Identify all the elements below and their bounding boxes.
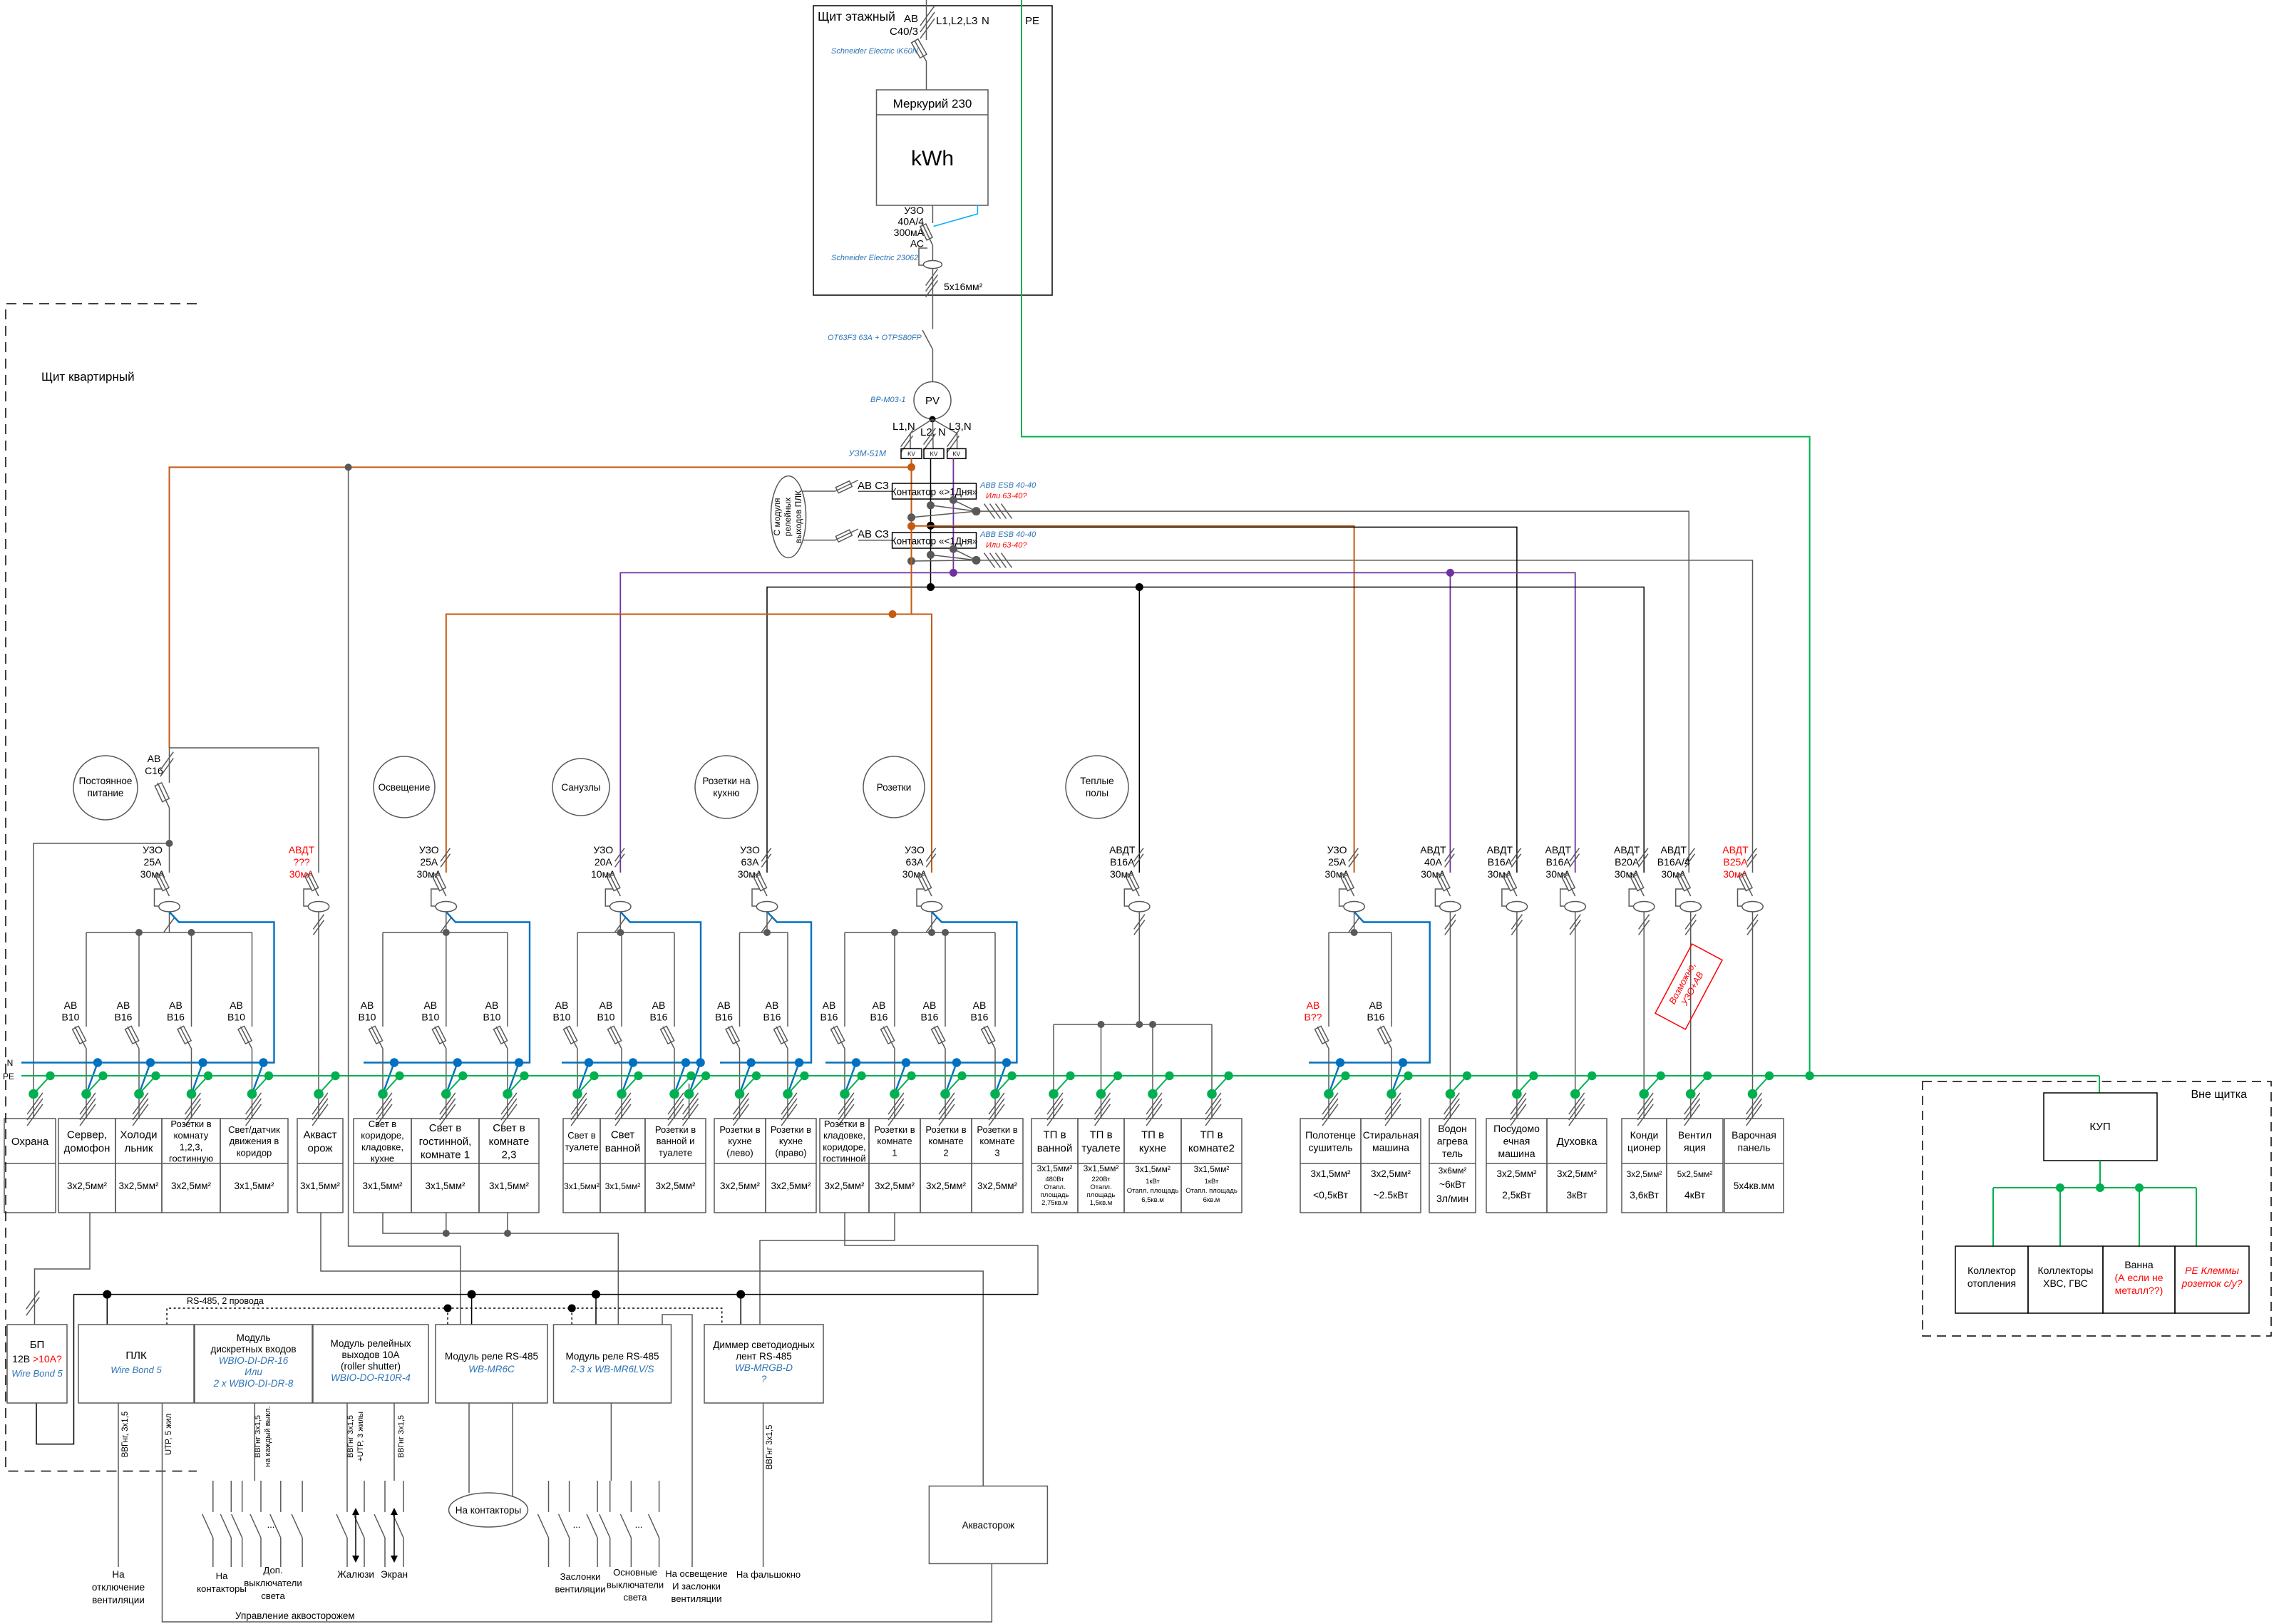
breaker АВ С16 symbol <box>169 748 170 783</box>
svg-text:ВВГнг 3х1,5: ВВГнг 3х1,5 <box>346 1415 355 1458</box>
breaker АВ В16 (кухня право) <box>787 932 788 1027</box>
svg-text:АВВ10: АВВ10 <box>553 999 571 1023</box>
svg-text:N: N <box>7 1058 14 1068</box>
group circle Розетки <box>863 756 925 818</box>
bus internal group A <box>86 932 252 933</box>
load tap свет туалет <box>577 1063 589 1094</box>
table box Холоди <box>115 1119 162 1213</box>
wire УЗО B to bus <box>446 912 447 932</box>
svg-text:На контакторы: На контакторы <box>456 1505 521 1516</box>
contactor K2 pole fan <box>912 560 977 561</box>
node L3 end at bathrooms bus <box>950 569 957 577</box>
RCBO АВДТ water heater symbol <box>1439 873 1450 896</box>
svg-text:ВВГнг 3х1,5: ВВГнг 3х1,5 <box>766 1425 774 1470</box>
node L1 tap to АВ С16 bus <box>907 463 915 471</box>
table box Акваст <box>297 1119 343 1213</box>
svg-text:6кв.м: 6кв.м <box>1203 1196 1220 1204</box>
wire contactor K2 output to cooktop feed <box>977 560 1753 873</box>
svg-text:Свет/датчик: Свет/датчик <box>228 1124 280 1135</box>
wire УЗО E to bus <box>931 912 932 932</box>
wire contactor K1 output to ventilation feed <box>977 511 1689 873</box>
load tap комната 3 <box>995 1063 1007 1094</box>
wire релейных to roller switches <box>346 1403 348 1481</box>
svg-text:3х1,5мм²: 3х1,5мм² <box>1194 1164 1230 1174</box>
svg-text:агрева: агрева <box>1437 1136 1468 1147</box>
table box Вентил <box>1667 1119 1723 1213</box>
svg-text:АВВ16: АВВ16 <box>763 999 781 1023</box>
RCBO АВДТ dishwasher symbol <box>1506 873 1517 896</box>
wire purple bus bathrooms / boiler / oven <box>620 572 1575 873</box>
svg-text:480Вт: 480Вт <box>1045 1176 1064 1183</box>
wire АВДТ cooktop to load <box>1752 912 1754 1119</box>
svg-text:3х1,5мм²: 3х1,5мм² <box>1084 1163 1119 1173</box>
wire ПЛК На отключение вентиляции <box>118 1403 119 1567</box>
svg-text:(право): (право) <box>775 1147 806 1158</box>
svg-text:+UTP, 3 жилы: +UTP, 3 жилы <box>356 1412 365 1461</box>
breaker АВ В10 (свет коридор) <box>382 932 384 1027</box>
svg-text:АВ СЗ: АВ СЗ <box>858 480 889 492</box>
svg-text:коридоре,: коридоре, <box>823 1141 865 1152</box>
svg-text:Сервер,: Сервер, <box>67 1129 107 1141</box>
svg-text:машина: машина <box>1372 1141 1409 1153</box>
svg-text:ТП в: ТП в <box>1089 1129 1112 1141</box>
load tap свет коридор <box>383 1063 394 1094</box>
svg-text:5х16мм²: 5х16мм² <box>944 281 983 292</box>
bus 12V power <box>74 1294 1039 1295</box>
svg-text:АВВ16: АВВ16 <box>870 999 888 1023</box>
svg-text:N: N <box>982 15 989 27</box>
load tap Свет/датчик <box>252 1063 264 1094</box>
svg-text:3х2,5мм²: 3х2,5мм² <box>118 1181 159 1191</box>
svg-text:Стиральная: Стиральная <box>1363 1129 1419 1141</box>
svg-text:кладовке,: кладовке, <box>823 1130 865 1141</box>
disconnect switch ОТ63F3 63А + OTPS80FP <box>922 330 932 349</box>
breaker АВ В10 (свет комнаты) <box>507 932 508 1027</box>
switch АВ СЗ contactor 2 coil feed <box>803 540 835 541</box>
svg-text:сушитель: сушитель <box>1308 1141 1352 1153</box>
svg-text:ТП в: ТП в <box>1043 1129 1066 1141</box>
svg-text:5х2,5мм²: 5х2,5мм² <box>1677 1169 1713 1179</box>
node purple tap to water heater <box>1446 569 1454 577</box>
svg-text:Духовка: Духовка <box>1557 1136 1598 1148</box>
svg-text:БП: БП <box>30 1339 45 1351</box>
wire feed АВДТ Аквасторож <box>170 748 319 873</box>
svg-text:АВДТВ16А30мА: АВДТВ16А30мА <box>1545 844 1571 880</box>
wire АВДТ ventilation to load <box>1690 912 1692 1119</box>
svg-text:Розетки в: Розетки в <box>655 1124 696 1135</box>
box Модуль реле WB-MR6C <box>436 1325 547 1403</box>
wire УЗО C to bus <box>619 912 621 932</box>
load tap extra drop <box>689 1063 701 1094</box>
wire brown bus to towel rail group <box>912 526 1354 873</box>
breaker АВ В16 (кладовка) <box>844 932 845 1027</box>
surge protector КВ box L1 <box>901 448 922 458</box>
wire L2,N branch <box>932 419 934 448</box>
svg-text:яция: яция <box>1684 1141 1706 1153</box>
breaker АВ В16 (Холодильник) <box>138 932 140 1027</box>
bus internal group C <box>577 932 674 933</box>
load tap Сервер <box>86 1063 98 1094</box>
svg-text:3х2,5мм²: 3х2,5мм² <box>1627 1169 1662 1179</box>
node L2 end at kitchen-sockets bus <box>927 583 935 591</box>
node power bus ПЛК <box>103 1290 111 1299</box>
RCBO АВДТ ventilation symbol <box>1679 873 1691 896</box>
svg-text:UTP, 5 жил: UTP, 5 жил <box>165 1414 173 1455</box>
svg-text:Аквасторож: Аквасторож <box>962 1520 1015 1531</box>
svg-text:~6кВт: ~6кВт <box>1439 1178 1466 1190</box>
svg-text:~2.5кВт: ~2.5кВт <box>1373 1189 1409 1201</box>
box Диммер светодиодных лент <box>704 1325 823 1403</box>
meter Меркурий 230 kWh box <box>877 90 989 205</box>
load tap ТП туалет <box>1101 1076 1118 1094</box>
table box Варочная <box>1724 1119 1784 1213</box>
svg-text:ТП в: ТП в <box>1141 1129 1164 1141</box>
svg-text:ванной: ванной <box>605 1142 640 1154</box>
load tap кухня право <box>788 1063 799 1094</box>
load tap ТП ванная <box>1054 1076 1071 1094</box>
meter PV ВР-М03-1 <box>914 382 951 419</box>
wire black bus to dishwasher <box>931 527 1517 873</box>
svg-text:УЗМ-51М: УЗМ-51М <box>848 448 886 458</box>
table box Свет в <box>354 1119 411 1213</box>
box Аквасторож device <box>929 1486 1047 1564</box>
svg-text:Щит квартирный: Щит квартирный <box>41 370 135 384</box>
svg-text:Свет в: Свет в <box>567 1130 596 1141</box>
svg-text:ционер: ционер <box>1627 1141 1661 1153</box>
svg-text:Модуль реле RS-485: Модуль реле RS-485 <box>565 1351 659 1362</box>
svg-text:3х2,5мм²: 3х2,5мм² <box>1496 1168 1537 1179</box>
svg-text:2,5кВт: 2,5кВт <box>1502 1189 1531 1201</box>
svg-text:3х2,5мм²: 3х2,5мм² <box>655 1181 696 1191</box>
wire УЗО A to bus <box>169 912 170 932</box>
box Модуль дискретных входов <box>195 1325 312 1403</box>
switches Заслонки вентиляции <box>548 1481 550 1512</box>
svg-text:АВВ10: АВВ10 <box>359 999 376 1023</box>
svg-text:6,5кв.м: 6,5кв.м <box>1141 1196 1164 1204</box>
load tap комната 1 <box>895 1063 906 1094</box>
svg-text:3х2,5мм²: 3х2,5мм² <box>1371 1168 1411 1179</box>
svg-text:3х1,5мм²: 3х1,5мм² <box>605 1181 641 1191</box>
table box Посудомо <box>1486 1119 1547 1213</box>
svg-text:Или 63-40?: Или 63-40? <box>986 541 1027 550</box>
wire socket room1 to dimmer <box>760 1213 895 1325</box>
svg-text:2,3: 2,3 <box>502 1149 517 1161</box>
node brown bus junction <box>889 610 897 618</box>
load tap кухня лево <box>740 1063 751 1094</box>
svg-text:кухне: кухне <box>728 1136 751 1146</box>
svg-text:Конди: Конди <box>1630 1129 1659 1141</box>
svg-text:PV: PV <box>925 395 940 407</box>
svg-text:На фальшокно: На фальшокно <box>736 1569 801 1580</box>
table box ТП в <box>1031 1119 1078 1213</box>
svg-text:PE: PE <box>3 1071 14 1081</box>
node PE junction from floor panel <box>1805 1071 1813 1080</box>
node power bus реле1 <box>468 1290 476 1299</box>
wire Аквасторож table to device <box>321 1213 983 1486</box>
svg-text:АВВ16: АВВ16 <box>820 999 838 1023</box>
wire На освещение и заслонки <box>662 1315 692 1567</box>
svg-text:кладовке,: кладовке, <box>361 1141 403 1152</box>
cable marks on phase branches <box>901 430 913 446</box>
table box Свет <box>600 1119 645 1213</box>
wire N blue group A <box>21 912 274 1063</box>
switches Экран <box>384 1481 386 1512</box>
svg-text:коридор: коридор <box>237 1147 272 1158</box>
breaker АВ В10 (Сервер) <box>86 932 87 1027</box>
svg-text:гостинную: гостинную <box>169 1153 213 1164</box>
breaker АВ В10 (свет гостиная) <box>446 932 447 1027</box>
svg-text:Свет в: Свет в <box>429 1122 462 1134</box>
svg-text:комнату: комнату <box>174 1130 209 1141</box>
svg-text:5х4кв.мм: 5х4кв.мм <box>1734 1181 1774 1191</box>
svg-text:PE: PE <box>1025 15 1039 27</box>
svg-text:ВВГнг 3х1,5: ВВГнг 3х1,5 <box>254 1415 262 1458</box>
wire purple drop to water heater <box>1449 572 1451 873</box>
svg-text:Модуль релейныхвыходов 10А(rol: Модуль релейныхвыходов 10А(roller shutte… <box>330 1338 411 1372</box>
table box ТП в <box>1078 1119 1124 1213</box>
wire meter output <box>932 205 933 223</box>
load tap стиральная <box>1391 1063 1403 1094</box>
table box Розетки в <box>766 1119 816 1213</box>
svg-text:3х1,5мм²: 3х1,5мм² <box>1310 1168 1351 1179</box>
load tap ventilation <box>1691 1076 1708 1094</box>
wire АВДТ F to bus <box>1138 912 1140 1024</box>
svg-text:ABB ESB 40-40: ABB ESB 40-40 <box>979 530 1036 539</box>
surge protector КВ box L2 <box>924 448 944 458</box>
table box Свет в <box>411 1119 479 1213</box>
svg-text:ванной: ванной <box>1037 1142 1072 1154</box>
group circle Санузлы <box>552 759 609 816</box>
svg-text:Розетки: Розетки <box>877 782 912 793</box>
svg-text:тель: тель <box>1442 1148 1463 1159</box>
svg-text:Вне щитка: Вне щитка <box>2191 1089 2247 1101</box>
svg-text:АВВ10: АВВ10 <box>483 999 501 1023</box>
load tap комната 2 <box>945 1063 957 1094</box>
wire Сервер to БП <box>35 1213 91 1325</box>
svg-text:машина: машина <box>1498 1148 1535 1159</box>
wire АВДТ dishwasher to load <box>1516 912 1518 1119</box>
svg-text:комнате: комнате <box>928 1136 963 1146</box>
wire L2 black vertical <box>930 458 932 587</box>
RCBO АВДТ cooktop symbol <box>1741 873 1753 896</box>
wire реле1 to contactors ellipse <box>468 1403 470 1493</box>
breaker АВ В10 (свет туалет) <box>577 932 578 1027</box>
RCBO АВДТ group F symbol <box>1128 873 1139 896</box>
svg-text:1кВт: 1кВт <box>1205 1178 1219 1186</box>
svg-text:АВВ??: АВВ?? <box>1305 999 1322 1023</box>
wire drop ТП кухня <box>1152 1024 1153 1119</box>
svg-text:ОТ63F3 63А + ОТPS80FP: ОТ63F3 63А + ОТPS80FP <box>828 334 922 342</box>
svg-text:Свет: Свет <box>611 1129 634 1141</box>
load tap розетки ванной <box>674 1063 686 1094</box>
table box Розетки в <box>645 1119 706 1213</box>
box РЕ Клеммы розеток <box>2175 1246 2249 1313</box>
svg-text:кухне: кухне <box>1139 1142 1166 1154</box>
table box Свет в <box>563 1119 600 1213</box>
svg-text:Розетки в: Розетки в <box>719 1124 760 1135</box>
load tap свет комнаты <box>508 1063 519 1094</box>
svg-text:2-3 х WB-MR6LV/S: 2-3 х WB-MR6LV/S <box>570 1364 654 1374</box>
svg-text:(лево): (лево) <box>726 1147 753 1158</box>
box КУП <box>2044 1093 2157 1161</box>
breaker АВ В16 (кухня лево) <box>739 932 741 1027</box>
svg-text:Варочная: Варочная <box>1732 1129 1776 1141</box>
svg-text:С40/3: С40/3 <box>890 26 918 38</box>
bus PE green <box>21 1075 2099 1076</box>
svg-text:Розетки в: Розетки в <box>977 1124 1017 1135</box>
svg-text:гостинной: гостинной <box>823 1153 865 1164</box>
svg-text:Водон: Водон <box>1438 1123 1467 1134</box>
svg-text:Розетки в: Розетки в <box>170 1119 211 1129</box>
wire АВДТ to Аквасторож load <box>318 912 319 1119</box>
svg-text:3л/мин: 3л/мин <box>1436 1193 1468 1204</box>
svg-text:площадь: площадь <box>1087 1191 1116 1199</box>
wire реле2 to switches <box>610 1403 612 1481</box>
breaker АВ В16 (стиральная) <box>1391 932 1392 1027</box>
wire PE КУП distribution <box>2099 1161 2101 1188</box>
svg-text:Холоди: Холоди <box>120 1129 158 1141</box>
svg-text:3х2,5мм²: 3х2,5мм² <box>720 1181 761 1191</box>
group circle Розетки на кухню <box>695 756 758 818</box>
svg-text:Посудомо: Посудомо <box>1493 1123 1540 1134</box>
breaker АВ В?? (полотенцесушитель) <box>1328 932 1329 1027</box>
wire drop ТП комната2 <box>1211 1024 1213 1119</box>
svg-text:АВ СЗ: АВ СЗ <box>858 528 889 540</box>
svg-text:Отапл. площадь: Отапл. площадь <box>1185 1187 1238 1195</box>
RCD УЗО group C symbol <box>609 873 620 896</box>
svg-text:орож: орож <box>308 1142 333 1154</box>
contactor K1 pole fan <box>912 511 977 518</box>
svg-text:АВДТВ20А30мА: АВДТВ20А30мА <box>1614 844 1640 880</box>
svg-text:ВВГнг 3х1,5: ВВГнг 3х1,5 <box>397 1415 406 1458</box>
svg-text:Ванна: Ванна <box>2124 1259 2154 1270</box>
wire grey riser from brown bus to relay module <box>349 467 461 1325</box>
RCD УЗО group E symbol <box>920 873 932 896</box>
svg-text:KV: KV <box>907 451 915 458</box>
load tap полотенцесушитель <box>1329 1063 1340 1094</box>
svg-text:движения в: движения в <box>230 1136 279 1146</box>
svg-text:KV: KV <box>952 451 960 458</box>
svg-text:3х2,5мм²: 3х2,5мм² <box>67 1181 108 1191</box>
load tap свет ванная <box>622 1063 633 1094</box>
table box Полотенце <box>1300 1119 1361 1213</box>
svg-text:С модулярелейныхвыходов ПЛК: С модулярелейныхвыходов ПЛК <box>772 490 803 543</box>
wire АВДТ water heater to load <box>1449 912 1451 1119</box>
box Коллекторы ХВС ГВС <box>2028 1246 2103 1313</box>
svg-text:комнате: комнате <box>489 1136 530 1148</box>
svg-text:3х1,5мм²: 3х1,5мм² <box>489 1181 530 1191</box>
wire black bus kitchen sockets / air conditioner <box>767 587 1644 873</box>
svg-text:3х1,5мм²: 3х1,5мм² <box>425 1181 465 1191</box>
table box Розетки в <box>869 1119 920 1213</box>
svg-text:ечная: ечная <box>1503 1136 1530 1147</box>
load tap ТП кухня <box>1153 1076 1170 1094</box>
table box ТП в <box>1181 1119 1242 1213</box>
RCBO АВДТ air conditioner symbol <box>1632 873 1644 896</box>
svg-text:3х2,5мм²: 3х2,5мм² <box>875 1181 915 1191</box>
wire meter neutral (light blue) <box>934 205 978 227</box>
table box Свет/датчик <box>220 1119 288 1213</box>
svg-text:...: ... <box>267 1519 275 1530</box>
svg-text:АВВ10: АВВ10 <box>597 999 615 1023</box>
node black tap to floor heating <box>1136 583 1143 591</box>
svg-text:3х2,5мм²: 3х2,5мм² <box>926 1181 967 1191</box>
svg-text:Щит этажный: Щит этажный <box>818 9 895 24</box>
switches Основные выключатели <box>597 1481 598 1512</box>
svg-text:АВВ16: АВВ16 <box>971 999 989 1023</box>
svg-text:3х1,5мм²: 3х1,5мм² <box>362 1181 403 1191</box>
wire brown bus lighting / sockets <box>446 615 932 873</box>
wire brown bus to АВ С16 (constant power) <box>170 467 912 748</box>
svg-text:Wire Bond 5: Wire Bond 5 <box>11 1368 63 1379</box>
svg-text:Отапл.: Отапл. <box>1090 1183 1111 1191</box>
table box Сервер, <box>58 1119 115 1213</box>
svg-text:АВВ10: АВВ10 <box>227 999 245 1023</box>
load tap air conditioner <box>1644 1076 1661 1094</box>
RCD УЗО group B symbol <box>435 873 446 896</box>
bus internal group G <box>1329 932 1391 933</box>
wire N blue group G <box>1309 912 1430 1063</box>
load tap water heater <box>1450 1076 1466 1094</box>
wire L1 brown vertical <box>911 458 912 614</box>
svg-text:2: 2 <box>943 1147 948 1158</box>
wire drop ТП ванная <box>1053 1024 1054 1119</box>
svg-text:3х2,5мм²: 3х2,5мм² <box>771 1181 811 1191</box>
svg-text:комнате2: комнате2 <box>1188 1142 1235 1154</box>
group circle Теплые полы <box>1066 756 1128 818</box>
svg-text:L3,N: L3,N <box>949 421 972 433</box>
RCBO АВДТ oven symbol <box>1564 873 1575 896</box>
table box Розетки в <box>162 1119 220 1213</box>
svg-text:Розетки в: Розетки в <box>925 1124 966 1135</box>
table box Духовка <box>1547 1119 1607 1213</box>
svg-text:3х2,5мм²: 3х2,5мм² <box>977 1181 1018 1191</box>
svg-text:АВС16: АВС16 <box>145 753 163 776</box>
RCD УЗО 40А/4 symbol <box>922 224 932 245</box>
svg-text:3х1,5мм²: 3х1,5мм² <box>300 1181 341 1191</box>
bus RS-485 dotted <box>167 1308 722 1325</box>
node junction to Охрана <box>166 840 173 847</box>
svg-text:туалете: туалете <box>659 1147 692 1158</box>
svg-text:кухне: кухне <box>779 1136 803 1146</box>
svg-text:АВДТВ25А30мА: АВДТВ25А30мА <box>1722 844 1749 880</box>
wire extra N+PE drop to bathroom sockets <box>689 1084 690 1119</box>
svg-text:АВВ16: АВВ16 <box>650 999 668 1023</box>
RCD УЗО 25А 30мА group A symbol <box>169 843 170 873</box>
svg-text:панель: панель <box>1738 1141 1771 1153</box>
wire N blue group B <box>364 912 530 1063</box>
bus internal group F <box>1054 1024 1212 1025</box>
wire black drop to floor heating <box>1138 587 1140 873</box>
svg-text:1,2,3,: 1,2,3, <box>180 1141 203 1152</box>
breaker АВ В16 (комната 2) <box>945 932 946 1027</box>
load tap Аквасторож <box>319 1076 336 1094</box>
load tap Холодильник <box>139 1063 150 1094</box>
svg-text:АВВ10: АВВ10 <box>62 999 80 1023</box>
svg-text:домофон: домофон <box>64 1142 110 1154</box>
svg-text:АВВ16: АВВ16 <box>115 999 133 1023</box>
wire дискретных to switches <box>254 1403 255 1481</box>
svg-text:Акваст: Акваст <box>303 1129 336 1141</box>
svg-text:3: 3 <box>994 1147 999 1158</box>
svg-text:3х1,5мм²: 3х1,5мм² <box>234 1181 274 1191</box>
svg-text:RS-485, 2 провода: RS-485, 2 провода <box>187 1296 264 1306</box>
bus internal group B <box>383 932 508 933</box>
breaker АВ В10 (свет ванная) <box>621 932 622 1027</box>
breaker АВ В10 (Свет/датчик) <box>252 932 253 1027</box>
svg-text:Розетки в: Розетки в <box>824 1119 865 1129</box>
svg-text:L1,L2,L3: L1,L2,L3 <box>936 15 977 27</box>
